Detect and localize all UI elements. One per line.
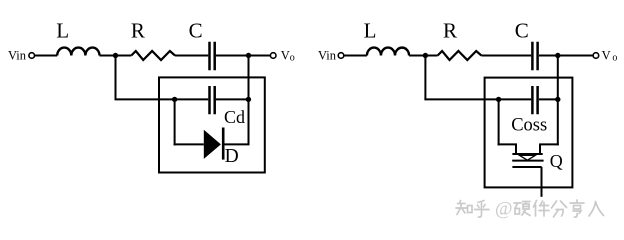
watermark char 乎 — [475, 201, 490, 218]
mosfet notch vertical right — [539, 144, 541, 154]
watermark char 知 — [456, 201, 472, 215]
diode D triangle — [204, 130, 221, 159]
wire L to node A — [100, 55, 132, 57]
inductor L2 — [367, 48, 409, 56]
wire node C2 down to mosfet drain rail — [498, 99, 500, 145]
capacitor C (left) — [210, 42, 215, 70]
mosfet body-diode cathode bar — [512, 153, 542, 155]
node C2 junction dot — [496, 97, 501, 102]
capacitor Cd — [210, 86, 215, 114]
svg-text:C: C — [189, 19, 203, 43]
wire node B down to diode output — [248, 56, 250, 145]
svg-text:R: R — [443, 19, 457, 43]
wire R to C — [175, 55, 208, 57]
svg-text:Coss: Coss — [511, 116, 547, 136]
wire L to node A2 — [409, 55, 438, 57]
svg-text:D: D — [225, 146, 239, 167]
mosfet body-diode triangle — [520, 155, 536, 160]
node B2 junction dot — [555, 53, 560, 58]
svg-text:o: o — [612, 52, 617, 63]
svg-text:o: o — [290, 52, 295, 63]
wire snubber rail left segment (right circuit) — [424, 98, 531, 100]
wire Coss to node D2 — [539, 98, 558, 100]
capacitor C (right) — [532, 42, 537, 70]
node C1 junction dot — [172, 97, 177, 102]
wire Vin to L (right) — [344, 55, 367, 57]
wire diode cathode to vertical — [225, 143, 250, 145]
diode D cathode bar — [222, 128, 225, 160]
wire node B2 down to mosfet drain rail — [557, 56, 559, 146]
node A2 junction dot — [423, 53, 428, 58]
node B junction dot — [246, 53, 251, 58]
node D1 junction dot — [246, 97, 251, 102]
wire node A down — [115, 55, 117, 100]
wire to diode anode — [174, 143, 204, 145]
wire R to C (right) — [481, 55, 531, 57]
watermark char 人 — [589, 202, 604, 217]
terminal Vin (right) — [338, 53, 344, 59]
box around snubber (left) — [159, 77, 265, 172]
wire C to Vo terminal — [216, 55, 270, 57]
wire Cd to node D1 — [216, 98, 249, 100]
mosfet gate bar — [512, 166, 541, 168]
svg-text:Vin: Vin — [8, 49, 27, 63]
svg-text:Vin: Vin — [318, 49, 337, 63]
terminal Vin (left) — [29, 53, 35, 59]
resistor R (right) — [438, 51, 482, 60]
wire node A2 down — [424, 55, 426, 100]
mosfet drain rail left segment — [498, 143, 517, 145]
wire Vin to L — [35, 55, 58, 57]
svg-text:L: L — [56, 19, 69, 43]
svg-text:L: L — [364, 19, 377, 43]
resistor R (left) — [131, 51, 175, 60]
terminal Vo (left) — [270, 53, 276, 59]
terminal Vo (right) — [593, 53, 599, 59]
mosfet drain rail right segment — [539, 143, 559, 145]
svg-text:R: R — [131, 19, 145, 43]
node D2 junction dot — [555, 97, 560, 102]
node A junction dot — [113, 53, 118, 58]
svg-text:Q: Q — [550, 151, 563, 171]
svg-text:V: V — [281, 49, 290, 63]
watermark char 分 — [552, 201, 567, 217]
wire diode branch down from node C1 — [174, 99, 176, 145]
watermark char @ — [495, 199, 513, 220]
wire C to Vo terminal (right) — [539, 55, 593, 57]
svg-text:Cd: Cd — [224, 107, 245, 127]
svg-text:C: C — [515, 19, 529, 43]
svg-text:V: V — [602, 49, 611, 63]
watermark char 享 — [570, 200, 584, 217]
box around snubber (right) — [485, 78, 573, 188]
mosfet notch vertical left — [515, 144, 517, 154]
watermark char 硬 — [514, 202, 530, 216]
watermark char 件 — [534, 201, 550, 217]
svg-text:@: @ — [495, 199, 513, 220]
mosfet channel bar — [512, 160, 543, 162]
mosfet gate lead down — [541, 167, 543, 197]
inductor L1 — [57, 48, 99, 56]
wire snubber rail left segment — [115, 98, 209, 100]
capacitor Coss — [532, 86, 537, 114]
